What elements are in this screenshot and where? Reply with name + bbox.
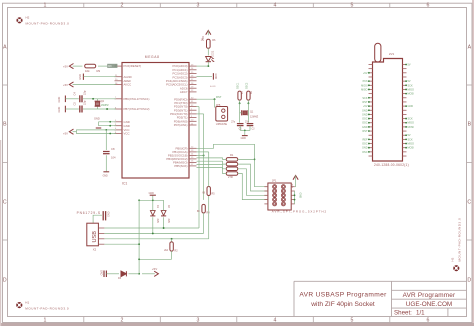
svg-text:IC1: IC1 <box>122 182 127 186</box>
svg-text:104: 104 <box>111 155 116 159</box>
svg-text:GND: GND <box>57 107 61 113</box>
svg-text:JP1: JP1 <box>272 179 277 183</box>
svg-text:UPDATE: UPDATE <box>216 122 227 126</box>
svg-text:C: C <box>467 200 471 206</box>
svg-text:+5V: +5V <box>63 83 68 87</box>
svg-text:UGE-ONE.COM: UGE-ONE.COM <box>406 301 453 308</box>
svg-text:GND: GND <box>149 192 155 195</box>
svg-text:C8: C8 <box>111 147 115 151</box>
svg-text:GND: GND <box>362 113 368 116</box>
svg-text:B: B <box>3 122 7 128</box>
svg-text:GND: GND <box>408 105 414 108</box>
svg-text:GND: GND <box>362 147 368 150</box>
svg-text:R1: R1 <box>230 153 234 157</box>
svg-text:5V: 5V <box>408 134 411 137</box>
svg-text:MOUNT-PAD-ROUND3.0: MOUNT-PAD-ROUND3.0 <box>25 307 69 311</box>
svg-text:M8: M8 <box>108 64 112 68</box>
svg-text:3: 3 <box>197 2 200 8</box>
svg-text:MOSI: MOSI <box>408 126 415 129</box>
svg-text:GND: GND <box>100 270 103 276</box>
svg-text:R9: R9 <box>97 69 101 73</box>
svg-text:with ZIF 40pin Socket: with ZIF 40pin Socket <box>310 301 375 308</box>
svg-text:PC6(/RESET): PC6(/RESET) <box>124 64 142 68</box>
svg-text:1: 1 <box>44 318 47 324</box>
svg-text:H3: H3 <box>451 257 455 261</box>
svg-text:D: D <box>3 278 7 284</box>
svg-text:MISO: MISO <box>361 88 367 91</box>
svg-text:MOSI: MOSI <box>408 147 415 150</box>
svg-text:MISO: MISO <box>408 143 414 146</box>
svg-text:3: 3 <box>197 318 200 324</box>
svg-text:PC6: PC6 <box>363 80 368 83</box>
svg-text:GND: GND <box>107 212 110 218</box>
svg-text:27R: 27R <box>228 175 233 179</box>
svg-text:+5V: +5V <box>291 183 294 188</box>
svg-text:MOSI: MOSI <box>408 93 415 96</box>
svg-text:MEGA8: MEGA8 <box>145 55 160 59</box>
svg-text:6: 6 <box>427 318 430 324</box>
svg-text:ZV1: ZV1 <box>389 52 395 56</box>
svg-text:AGND: AGND <box>210 85 216 88</box>
svg-text:OSC1: OSC1 <box>238 82 240 89</box>
svg-text:PB7(XTAL2/TOSC2): PB7(XTAL2/TOSC2) <box>124 107 150 111</box>
svg-text:ADC7: ADC7 <box>180 90 188 94</box>
svg-text:C: C <box>3 200 7 206</box>
svg-text:GND: GND <box>57 97 61 103</box>
svg-text:A: A <box>468 45 472 51</box>
svg-text:1/1: 1/1 <box>416 310 425 317</box>
svg-text:GND: GND <box>94 117 100 121</box>
svg-text:PN61729-S: PN61729-S <box>77 211 101 215</box>
svg-text:H2: H2 <box>26 16 30 20</box>
svg-text:+5V: +5V <box>152 267 157 271</box>
svg-text:MOUNT-PAD-ROUND3.0: MOUNT-PAD-ROUND3.0 <box>458 218 462 262</box>
svg-text:4: 4 <box>274 2 277 8</box>
svg-text:SCK: SCK <box>362 97 367 100</box>
svg-text:AVCC: AVCC <box>124 83 132 87</box>
svg-text:C4: C4 <box>73 92 77 96</box>
svg-text:OSC: OSC <box>362 118 368 121</box>
svg-text:4: 4 <box>274 318 277 324</box>
svg-text:RST: RST <box>363 101 368 104</box>
svg-text:X2: X2 <box>93 248 97 252</box>
svg-text:GND: GND <box>299 193 302 199</box>
svg-text:GND: GND <box>362 126 368 129</box>
svg-text:GND: GND <box>362 109 368 112</box>
svg-text:240-1288-00-0602(1): 240-1288-00-0602(1) <box>374 163 409 167</box>
svg-text:GND: GND <box>214 74 217 80</box>
svg-text:PD7(AIN1): PD7(AIN1) <box>174 123 188 127</box>
svg-text:OSC: OSC <box>362 151 368 154</box>
svg-text:16MHZ: 16MHZ <box>101 104 109 107</box>
svg-text:SCK: SCK <box>408 118 413 121</box>
svg-text:SCK: SCK <box>408 138 413 141</box>
svg-text:MISO: MISO <box>408 122 414 125</box>
svg-text:LED1: LED1 <box>212 50 215 57</box>
svg-text:3V6: 3V6 <box>156 219 159 224</box>
svg-text:SCK: SCK <box>408 84 413 87</box>
svg-text:MISO: MISO <box>408 88 414 91</box>
svg-text:Sheet:: Sheet: <box>394 310 412 317</box>
svg-text:2: 2 <box>121 318 124 324</box>
svg-text:+5V: +5V <box>363 105 368 108</box>
svg-text:GND: GND <box>241 137 247 140</box>
svg-text:AVR Programmer: AVR Programmer <box>403 292 456 299</box>
svg-text:5V: 5V <box>408 64 411 67</box>
svg-text:MOUNT-PAD-ROUND3.0: MOUNT-PAD-ROUND3.0 <box>26 22 70 26</box>
svg-text:PB5(SCK): PB5(SCK) <box>174 164 187 168</box>
svg-text:C5: C5 <box>73 102 77 106</box>
svg-text:B: B <box>468 122 472 128</box>
svg-text:1: 1 <box>44 2 47 8</box>
svg-text:D: D <box>467 278 471 284</box>
svg-text:22p: 22p <box>83 100 87 105</box>
svg-text:GND: GND <box>103 176 108 178</box>
svg-text:OSC2: OSC2 <box>246 82 248 89</box>
svg-text:PB6(XTAL1/TOSC1): PB6(XTAL1/TOSC1) <box>124 97 150 101</box>
svg-text:REF: REF <box>363 138 368 141</box>
svg-text:2: 2 <box>121 2 124 8</box>
svg-text:6: 6 <box>427 2 430 8</box>
svg-text:USB: USB <box>92 231 98 243</box>
svg-text:RST: RST <box>216 95 222 99</box>
svg-text:RST: RST <box>363 130 368 133</box>
svg-text:5V: 5V <box>408 80 411 83</box>
svg-text:MOSI: MOSI <box>361 84 368 87</box>
svg-text:5: 5 <box>351 2 354 8</box>
svg-text:+5V: +5V <box>363 72 368 75</box>
svg-text:H1: H1 <box>25 300 29 304</box>
svg-text:AVR_SPI_PROG_5X2PTH2: AVR_SPI_PROG_5X2PTH2 <box>272 209 327 213</box>
svg-text:A: A <box>3 45 7 51</box>
svg-text:OSC: OSC <box>362 122 368 125</box>
svg-text:VCC: VCC <box>124 132 130 136</box>
svg-text:22p: 22p <box>83 90 87 95</box>
svg-text:2k2: 2k2 <box>164 249 169 252</box>
svg-text:12MHZ: 12MHZ <box>250 116 259 119</box>
svg-text:GND: GND <box>78 74 82 80</box>
svg-text:OSC: OSC <box>362 143 368 146</box>
svg-text:AVR USBASP Programmer: AVR USBASP Programmer <box>299 292 387 299</box>
svg-text:+5V: +5V <box>63 132 68 136</box>
svg-text:3V6: 3V6 <box>167 219 170 224</box>
svg-text:10k: 10k <box>85 69 90 73</box>
svg-text:5: 5 <box>351 318 354 324</box>
svg-text:+5V: +5V <box>63 65 68 69</box>
